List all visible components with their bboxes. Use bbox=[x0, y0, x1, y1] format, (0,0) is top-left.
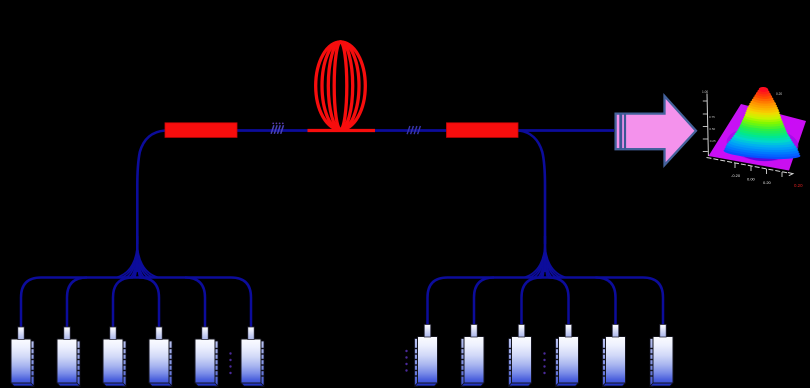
svg-text:0.20: 0.20 bbox=[763, 180, 772, 185]
fibre Bragg grating FBG1 bbox=[165, 123, 237, 138]
pump diode module L2 bbox=[57, 327, 80, 387]
right pump combiner fan bbox=[525, 236, 566, 277]
right drop fibre to module R3 bbox=[522, 278, 542, 326]
right pump bus fibre bbox=[428, 278, 664, 326]
left drop fibre to module L5 bbox=[185, 278, 205, 328]
beam profile plot: x axis bbox=[707, 158, 804, 189]
pump diode module R5 bbox=[603, 325, 626, 387]
left down-lead fibre bbox=[137, 131, 165, 245]
svg-text:0.25: 0.25 bbox=[710, 139, 716, 143]
svg-text:0.00: 0.00 bbox=[747, 177, 756, 182]
svg-text:0.75: 0.75 bbox=[709, 115, 715, 119]
beam profile plot: base plane bbox=[709, 104, 807, 171]
output arrow bbox=[616, 96, 696, 165]
svg-text:-0.20: -0.20 bbox=[731, 173, 741, 178]
splice marks right bbox=[407, 126, 420, 134]
pump diode module R6 bbox=[650, 325, 673, 387]
beam profile plot: z axis bbox=[702, 90, 782, 156]
left pump combiner fan bbox=[117, 236, 158, 277]
active fibre under coil bbox=[308, 129, 376, 132]
pump diode module L3 bbox=[103, 327, 126, 387]
ellipsis dots between groups bbox=[405, 350, 407, 372]
svg-text:1.00: 1.00 bbox=[702, 90, 708, 94]
pump diode module L4 bbox=[149, 327, 172, 387]
splice marks left bbox=[271, 123, 284, 134]
beam profile plot: gaussian surface bbox=[723, 87, 801, 164]
pump diode module R1 bbox=[415, 325, 438, 387]
ellipsis dots right group bbox=[543, 352, 545, 374]
pump diode module L1 bbox=[11, 327, 34, 387]
svg-text:0.20: 0.20 bbox=[776, 92, 782, 96]
pump diode module R2 bbox=[461, 325, 484, 387]
right drop fibre to module R4 bbox=[549, 278, 569, 326]
svg-text:0.20: 0.20 bbox=[794, 183, 803, 188]
main fibre line bbox=[165, 129, 614, 132]
left drop fibre to module L3 bbox=[113, 278, 133, 328]
pump diode module R3 bbox=[509, 325, 532, 387]
active fibre coil bbox=[316, 42, 366, 130]
left drop fibre to module L4 bbox=[139, 278, 159, 328]
pump diode module L5 bbox=[195, 327, 218, 387]
pump diode module L6 bbox=[241, 327, 264, 387]
fibre Bragg grating FBG2 bbox=[447, 123, 519, 138]
left pump bus fibre bbox=[21, 278, 251, 328]
left drop fibre to module L2 bbox=[67, 278, 87, 328]
right drop fibre to module R2 bbox=[474, 278, 494, 326]
ellipsis dots left group bbox=[229, 352, 231, 374]
pump diode module R4 bbox=[556, 325, 579, 387]
svg-text:0.50: 0.50 bbox=[709, 127, 715, 131]
right drop fibre to module R5 bbox=[596, 278, 616, 326]
right down-lead fibre bbox=[519, 131, 545, 245]
